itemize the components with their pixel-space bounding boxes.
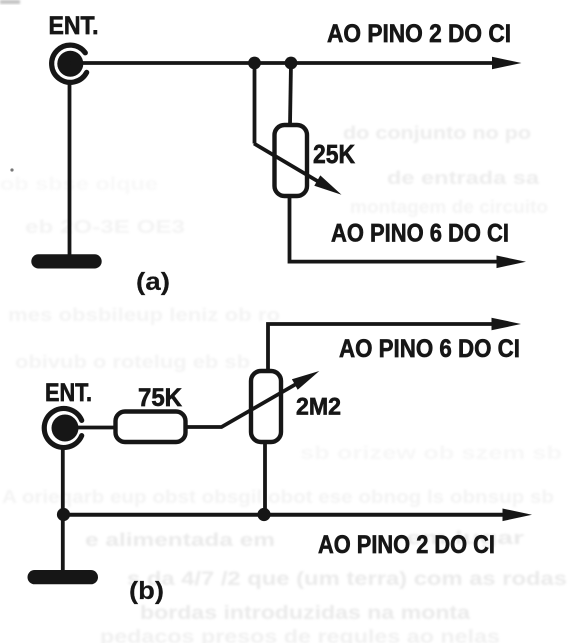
- svg-text:AO PINO 2 DO CI: AO PINO 2 DO CI: [318, 531, 495, 559]
- connector J2 ENT (b): open ring: [44, 409, 81, 448]
- svg-text:de entrada sa: de entrada sa: [387, 167, 540, 188]
- svg-text:sb orizew ob szem sb: sb orizew ob szem sb: [300, 442, 562, 463]
- wire: pot top drop (a): [290, 63, 291, 125]
- ground bar (a): [31, 254, 101, 268]
- wire: bottom rail (b): [64, 513, 504, 517]
- arrowhead to AO PINO 2 DO CI: [492, 57, 522, 70]
- svg-text:AO PINO 6 DO CI: AO PINO 6 DO CI: [331, 220, 509, 248]
- svg-text:pedacos presos de regules ao n: pedacos presos de regules ao nelas: [100, 627, 500, 643]
- potentiometer P2 body 2M2: [251, 371, 281, 442]
- wire: pot bottom drop (b): [263, 442, 267, 515]
- svg-text:mes obsbileup leniz ob ro: mes obsbileup leniz ob ro: [8, 304, 280, 325]
- node: junction dot left bottom rail (b): [57, 508, 70, 521]
- arrowhead to AO PINO 2 DO CI (b): [503, 509, 533, 522]
- wire: wiper feed drop (a): [253, 63, 257, 144]
- wire: resistor to wiper (b): [186, 384, 297, 428]
- svg-text:eb 2O-3E OE3: eb 2O-3E OE3: [25, 216, 185, 237]
- wire: ENT drop to ground (b): [61, 446, 65, 572]
- svg-text:s da 4/7 /2 que (um terra) com: s da 4/7 /2 que (um terra) com as rodas: [127, 569, 567, 590]
- arrowhead to AO PINO 6 DO CI (a): [497, 256, 527, 269]
- svg-text:(b): (b): [129, 577, 164, 605]
- svg-text:AO PINO 2 DO CI: AO PINO 2 DO CI: [327, 20, 511, 48]
- connector J1 center dot: [57, 51, 83, 77]
- wire: top rail (a): [70, 61, 496, 65]
- svg-text:obivub o rotelug eb sb: obivub o rotelug eb sb: [15, 351, 250, 372]
- svg-text:AO PINO 6 DO CI: AO PINO 6 DO CI: [339, 335, 520, 363]
- svg-text:do conjunto no po: do conjunto no po: [343, 122, 531, 143]
- node: junction dot left (a): [248, 57, 261, 70]
- svg-text:bordas introduzidas na monta: bordas introduzidas na monta: [140, 603, 471, 624]
- ground bar (b): [28, 570, 99, 584]
- wire: pot top to pin 6 (b): [268, 324, 492, 371]
- faint bleed-through rows mid page: [0, 173, 562, 507]
- potentiometer P1 wiper arrow: [254, 144, 319, 183]
- node: junction dot right (a): [285, 57, 298, 70]
- potentiometer P2 wiper arrowhead: [292, 371, 319, 390]
- svg-text:montagem de circuito: montagem de circuito: [350, 196, 548, 217]
- svg-text:ENT.: ENT.: [45, 379, 92, 407]
- svg-text:ob sbse olque: ob sbse olque: [0, 173, 158, 194]
- node: junction dot pot bottom (b): [257, 508, 270, 521]
- faint bleed-through text right of circuit (a): [343, 122, 548, 217]
- svg-text:75K: 75K: [138, 384, 182, 412]
- faint left-edge marks: [0, 0, 20, 172]
- wire: connector to resistor (b): [65, 426, 116, 430]
- svg-text:ENT.: ENT.: [49, 12, 99, 40]
- arrowhead to AO PINO 6 DO CI (b): [492, 318, 522, 331]
- svg-text:(a): (a): [136, 268, 170, 296]
- resistor R1 body 75K: [116, 412, 186, 443]
- wire: ENT drop to ground (a): [68, 81, 72, 256]
- connector J1 ENT (a): open ring: [52, 45, 87, 82]
- wire: pot bottom to pin 6 (a): [290, 196, 498, 262]
- svg-text:e alimentada em: e alimentada em: [85, 529, 275, 550]
- svg-text:A orieqarb eup obst obsgil obo: A orieqarb eup obst obsgil obot ese obno…: [2, 486, 554, 507]
- svg-text:25K: 25K: [313, 139, 355, 169]
- potentiometer P1 body 25K: [275, 125, 308, 196]
- faint bleed-through text bottom region: [85, 527, 567, 643]
- svg-text:2M2: 2M2: [296, 394, 341, 421]
- connector J2 center dot: [52, 415, 79, 442]
